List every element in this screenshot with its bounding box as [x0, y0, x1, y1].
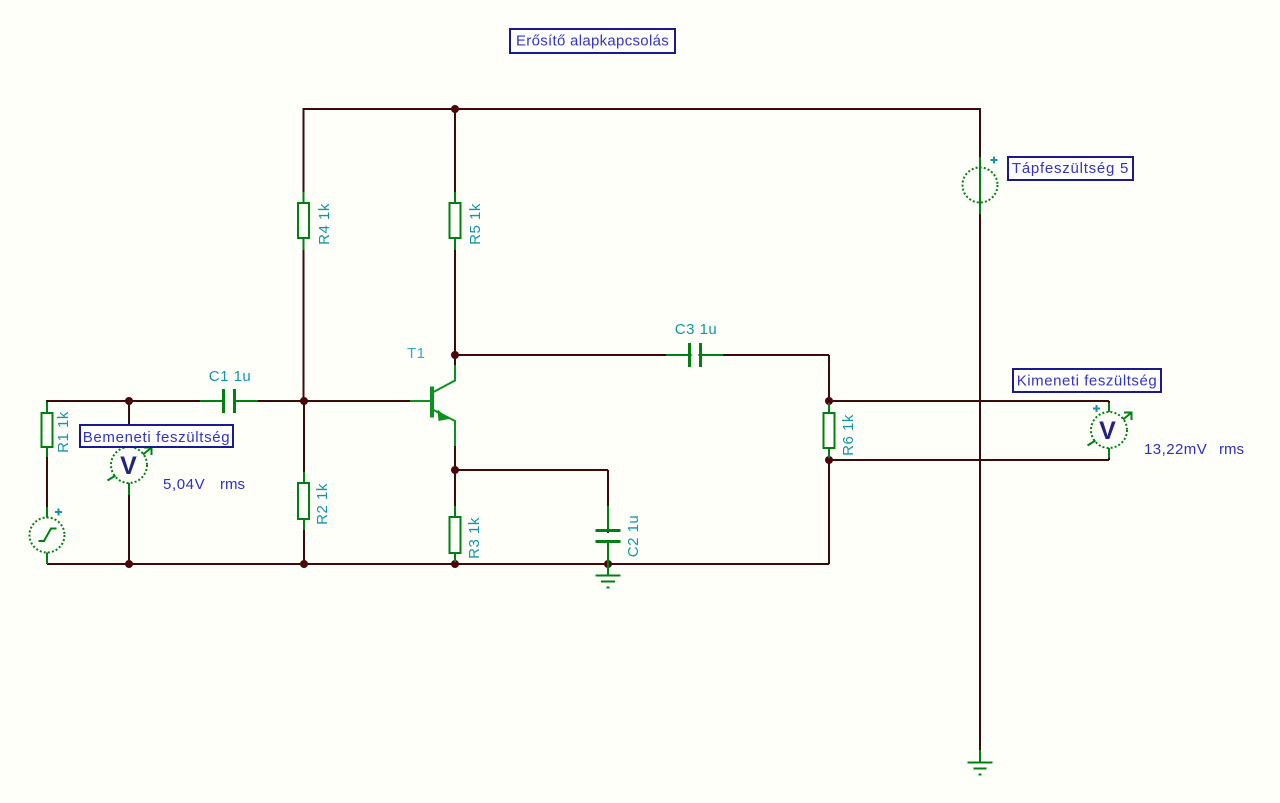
svg-text:Erősítő alapkapcsolás: Erősítő alapkapcsolás: [516, 33, 669, 50]
svg-text:5,04V: 5,04V: [163, 476, 205, 493]
svg-text:R6 1k: R6 1k: [840, 414, 857, 456]
svg-text:rms: rms: [1219, 441, 1244, 458]
svg-text:C2 1u: C2 1u: [625, 515, 642, 558]
svg-text:T1: T1: [407, 345, 426, 362]
svg-text:V: V: [120, 452, 137, 480]
svg-text:V: V: [1099, 417, 1116, 445]
svg-text:13,22mV: 13,22mV: [1144, 441, 1207, 458]
svg-text:C3 1u: C3 1u: [675, 321, 718, 338]
svg-text:Bemeneti feszültség: Bemeneti feszültség: [83, 429, 230, 446]
svg-text:rms: rms: [220, 476, 245, 493]
svg-text:R4 1k: R4 1k: [316, 203, 333, 245]
svg-text:R1 1k: R1 1k: [55, 411, 72, 453]
svg-text:R3 1k: R3 1k: [466, 517, 483, 559]
svg-text:R2 1k: R2 1k: [314, 483, 331, 525]
svg-text:R5 1k: R5 1k: [467, 203, 484, 245]
svg-text:Kimeneti feszültség: Kimeneti feszültség: [1017, 373, 1158, 390]
svg-text:Tápfeszültség 5: Tápfeszültség 5: [1012, 160, 1129, 177]
svg-text:C1 1u: C1 1u: [209, 368, 252, 385]
